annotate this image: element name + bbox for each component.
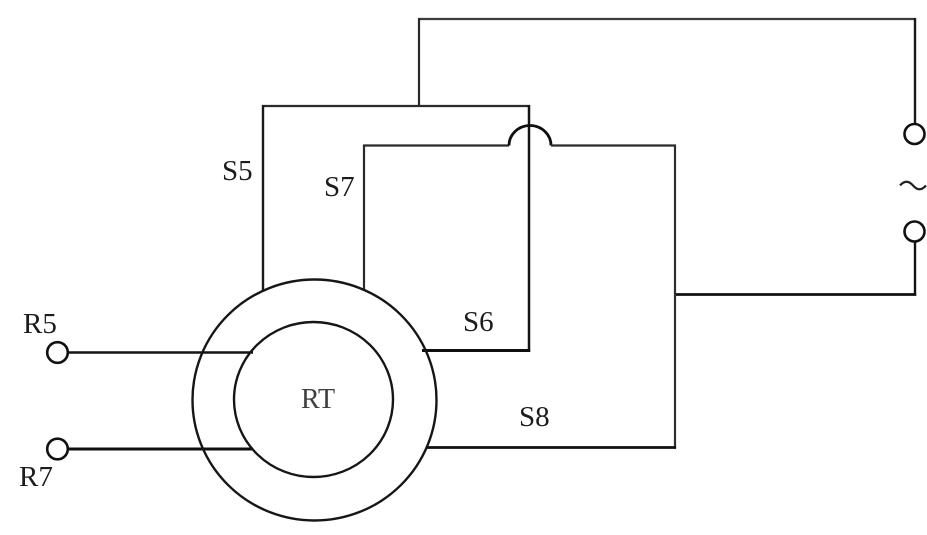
winding S7-S8 top edge left segment xyxy=(363,144,509,146)
wire hop crossover arc xyxy=(509,126,551,146)
AC source symbol ~ xyxy=(900,182,926,190)
winding S5-S6 top edge xyxy=(262,105,530,107)
wire R5 primary lead xyxy=(68,351,253,354)
wire AC branch horizontal to node at S7 right edge xyxy=(674,293,916,296)
label R5 xyxy=(23,308,57,341)
winding S5-S6 left edge (S5 lead) xyxy=(262,105,264,291)
wire top loop horizontal xyxy=(418,18,916,20)
winding S7-S8 left edge (S7 lead) xyxy=(363,145,365,291)
current transformer RT core inner circle xyxy=(234,322,393,477)
label S6 xyxy=(463,306,494,339)
wire top loop left vertical xyxy=(418,18,420,107)
wire top loop right vertical xyxy=(914,18,916,124)
wire R7 primary lead xyxy=(68,448,253,451)
terminal R5 xyxy=(47,342,68,363)
AC source terminal top xyxy=(905,124,925,144)
label S7 xyxy=(324,171,355,204)
AC source terminal bottom xyxy=(905,222,925,242)
current transformer RT core outer circle xyxy=(193,280,437,521)
winding S5-S6 right edge xyxy=(528,105,531,352)
winding S7-S8 top edge right segment xyxy=(551,144,676,146)
wire from bottom AC terminal down xyxy=(914,242,916,296)
label S8 xyxy=(519,401,550,434)
winding S7-S8 bottom edge (S8 lead) xyxy=(426,446,676,449)
label S5 xyxy=(222,155,253,188)
label R7 xyxy=(19,461,53,494)
label RT xyxy=(301,384,335,416)
terminal R7 xyxy=(47,439,68,460)
winding S5-S6 bottom edge (S6 lead) xyxy=(422,349,530,352)
winding S7-S8 right edge xyxy=(674,145,676,449)
